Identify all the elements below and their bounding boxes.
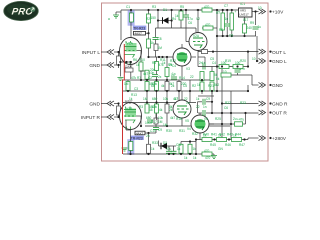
svg-text:1k: 1k xyxy=(151,147,155,151)
svg-text:2x: 2x xyxy=(158,75,162,79)
regulator U1 LM317 xyxy=(239,2,253,17)
svg-text:R23: R23 xyxy=(240,101,246,105)
wire right column xyxy=(196,36,259,140)
tube V2 (driver L upper) xyxy=(189,10,207,67)
svg-text:68: 68 xyxy=(151,84,155,88)
svg-text:1k: 1k xyxy=(184,156,188,160)
svg-text:10k: 10k xyxy=(158,116,164,120)
svg-text:GND L: GND L xyxy=(272,59,287,65)
svg-text:R31: R31 xyxy=(179,129,185,133)
svg-text:R45: R45 xyxy=(210,143,216,147)
resistor R31 xyxy=(197,82,204,91)
svg-text:C9: C9 xyxy=(158,128,162,132)
svg-text:C3: C3 xyxy=(134,87,138,91)
svg-text:R3: R3 xyxy=(139,105,143,109)
svg-text:22: 22 xyxy=(190,75,194,79)
junction dots right xyxy=(195,51,258,141)
capacitor C8 electrolytic xyxy=(218,10,225,30)
capacitor C4 xyxy=(171,73,177,79)
svg-text:V5: V5 xyxy=(185,119,189,123)
resistor R20 xyxy=(233,61,243,69)
svg-text:V2A: V2A xyxy=(193,34,200,38)
capacitor C16 electrolytic xyxy=(235,118,245,127)
svg-text:470: 470 xyxy=(205,156,211,160)
value label box R xyxy=(135,131,150,135)
svg-text:1k: 1k xyxy=(129,97,133,101)
svg-text:+: + xyxy=(235,10,237,14)
label TR-R24 (selected, blue) xyxy=(130,136,144,141)
svg-text:R2: R2 xyxy=(192,84,196,88)
resistor R7 xyxy=(145,82,155,91)
tube V5 (driver R upper) xyxy=(173,91,191,126)
resistor R33 xyxy=(200,72,204,81)
svg-text:R22: R22 xyxy=(225,101,231,105)
svg-text:R42: R42 xyxy=(219,133,225,137)
svg-text:4AX7: 4AX7 xyxy=(136,131,144,135)
svg-text:1M: 1M xyxy=(143,97,148,101)
svg-text:10k: 10k xyxy=(163,97,169,101)
capacitor C17 xyxy=(235,67,246,72)
svg-text:V3: V3 xyxy=(186,67,190,71)
svg-text:470: 470 xyxy=(204,5,210,9)
svg-text:470: 470 xyxy=(205,23,211,27)
resistor R9 xyxy=(165,82,174,91)
resistor R29 xyxy=(188,144,196,153)
svg-text:1u: 1u xyxy=(258,25,262,29)
svg-text:C9: C9 xyxy=(206,97,210,101)
svg-text:4k: 4k xyxy=(159,108,163,112)
svg-text:OUT L: OUT L xyxy=(272,50,286,56)
svg-text:10: 10 xyxy=(223,70,227,74)
port GND (left upper) xyxy=(89,62,119,69)
svg-text:1k: 1k xyxy=(136,63,140,67)
port OUT L xyxy=(259,49,287,56)
resistor R30 xyxy=(196,149,214,156)
port GND R xyxy=(259,101,288,108)
resistor R27 xyxy=(147,144,155,153)
svg-text:GND R: GND R xyxy=(272,102,288,108)
svg-text:1k: 1k xyxy=(197,83,201,87)
ground (top left) xyxy=(108,12,121,21)
svg-text:22: 22 xyxy=(196,105,200,109)
resistor R37 (series out L) xyxy=(202,50,215,54)
svg-text:R47: R47 xyxy=(239,143,245,147)
svg-text:240: 240 xyxy=(247,26,253,30)
tube V6 (driver R lower) xyxy=(191,113,214,140)
svg-text:680: 680 xyxy=(152,97,158,101)
capacitor C9 electrolytic xyxy=(230,10,237,30)
port OUT R xyxy=(259,110,288,117)
svg-text:R21: R21 xyxy=(208,84,214,88)
svg-text:R8: R8 xyxy=(152,61,156,65)
port GND L xyxy=(259,58,287,65)
resistor R26 on 280V rail xyxy=(232,134,242,142)
svg-text:C1: C1 xyxy=(126,5,130,9)
svg-text:C7: C7 xyxy=(174,97,178,101)
svg-text:OUT R: OUT R xyxy=(272,111,287,117)
resistor R4 xyxy=(155,62,165,71)
wire top +10V bus xyxy=(121,10,259,40)
resistor R6 xyxy=(124,82,130,91)
resistor R24 on 280V rail xyxy=(202,134,212,142)
svg-text:R5: R5 xyxy=(180,5,184,9)
resistor R19 xyxy=(219,61,229,69)
svg-text:R7: R7 xyxy=(216,11,220,15)
bottom strip wires xyxy=(123,133,196,154)
port GND right xyxy=(259,82,284,89)
svg-text:R3: R3 xyxy=(152,5,156,9)
schematic frame xyxy=(102,3,269,161)
svg-text:V2: V2 xyxy=(196,17,200,21)
resistor R8 xyxy=(152,82,159,91)
svg-text:R8: R8 xyxy=(219,28,223,32)
resistor R13 xyxy=(165,104,174,113)
wire grid mid-left xyxy=(122,51,230,127)
resistor R17 xyxy=(203,23,213,30)
resistor R35 xyxy=(140,70,149,79)
svg-text:R33: R33 xyxy=(152,141,158,145)
resistor R2 (input load R) xyxy=(117,102,121,118)
port INPUT L xyxy=(82,49,122,56)
resistor R1 (input load L) xyxy=(117,51,121,68)
resistor R36 xyxy=(147,33,155,58)
svg-text:47u: 47u xyxy=(166,147,172,151)
resistor R32 xyxy=(210,82,219,91)
svg-text:R40: R40 xyxy=(203,133,209,137)
svg-text:V6: V6 xyxy=(204,117,208,121)
svg-text:2n: 2n xyxy=(199,61,203,65)
svg-text:4AX7: 4AX7 xyxy=(135,32,143,36)
tube V4 (input triode R) xyxy=(120,99,142,130)
svg-text:1k: 1k xyxy=(162,61,166,65)
svg-text:2k: 2k xyxy=(169,108,173,112)
svg-text:4k7: 4k7 xyxy=(170,116,175,120)
svg-text:1k: 1k xyxy=(193,156,197,160)
svg-text:C5: C5 xyxy=(183,84,187,88)
svg-text:GND: GND xyxy=(89,102,100,108)
svg-text:+280V: +280V xyxy=(272,136,287,142)
junction dots grid line xyxy=(158,56,168,58)
capacitor C21 grid V5 xyxy=(149,113,163,133)
svg-text:GND: GND xyxy=(89,63,100,69)
svg-text:R9: R9 xyxy=(168,63,172,67)
svg-text:R25: R25 xyxy=(215,117,221,121)
value label box L xyxy=(134,31,150,35)
port +280V xyxy=(259,135,287,142)
svg-text:47k: 47k xyxy=(131,76,137,80)
svg-text:V4: V4 xyxy=(187,127,191,131)
logo PRO badge xyxy=(4,1,39,20)
resistor R28 xyxy=(177,144,183,153)
junction dots bottom xyxy=(129,140,197,155)
label TR-R23 (selected, blue) xyxy=(133,26,147,31)
resistor R21 xyxy=(221,70,231,77)
svg-text:R32: R32 xyxy=(192,132,198,136)
capacitor C1 selected (blue highlight) xyxy=(128,9,135,39)
svg-text:22n: 22n xyxy=(150,68,156,72)
svg-text:C10: C10 xyxy=(150,129,156,133)
svg-text:TR-R23: TR-R23 xyxy=(133,26,145,30)
svg-text:R2: R2 xyxy=(146,17,150,21)
svg-text:R7: R7 xyxy=(137,76,141,80)
resistor R34 xyxy=(210,72,218,81)
svg-text:C4: C4 xyxy=(212,61,216,65)
svg-text:1k: 1k xyxy=(193,147,197,151)
svg-text:R46: R46 xyxy=(225,143,231,147)
capacitor C3 xyxy=(149,71,158,77)
resistor R5 xyxy=(165,63,173,77)
svg-text:1M: 1M xyxy=(124,82,129,86)
tube V1 (input triode L) xyxy=(117,38,141,81)
svg-text:R6: R6 xyxy=(133,58,137,62)
wire driver columns bottom xyxy=(198,67,259,140)
capacitor C11 xyxy=(166,147,172,153)
svg-text:D1: D1 xyxy=(163,8,167,12)
capacitor C20 grid V3 xyxy=(149,28,174,57)
port GND (left lower) xyxy=(89,101,119,108)
capacitor C2 selected (blue highlight) xyxy=(127,129,134,155)
svg-text:LM317: LM317 xyxy=(240,13,250,17)
svg-text:150: 150 xyxy=(151,16,157,20)
ground (bottom left) xyxy=(122,148,128,151)
svg-text:C4: C4 xyxy=(172,64,176,68)
capacitor C13 xyxy=(202,61,206,70)
capacitor C5 xyxy=(145,120,153,125)
svg-text:V1B: V1B xyxy=(126,107,133,111)
capacitor C15 xyxy=(203,110,205,116)
green value labels row above 280V rail xyxy=(203,133,241,137)
svg-text:1M: 1M xyxy=(158,46,163,50)
svg-text:C7: C7 xyxy=(224,4,228,8)
svg-text:GN: GN xyxy=(218,147,223,151)
svg-text:2n: 2n xyxy=(146,134,150,138)
svg-text:1k: 1k xyxy=(196,97,200,101)
svg-text:470: 470 xyxy=(204,149,210,153)
capacitor C6 xyxy=(183,15,193,21)
svg-text:GND: GND xyxy=(272,83,283,89)
svg-text:817: 817 xyxy=(243,18,249,22)
svg-text:R20: R20 xyxy=(240,59,246,63)
svg-text:R4: R4 xyxy=(172,17,176,21)
svg-text:C8: C8 xyxy=(158,37,162,41)
svg-text:R9: R9 xyxy=(250,21,254,25)
resistor R10 xyxy=(177,82,187,91)
svg-text:V1A: V1A xyxy=(127,42,134,46)
port +10V xyxy=(259,9,285,16)
svg-text:68: 68 xyxy=(149,108,153,112)
port INPUT R xyxy=(81,114,122,121)
svg-text:1n: 1n xyxy=(186,101,190,105)
svg-text:R14: R14 xyxy=(179,76,185,80)
svg-text:1k: 1k xyxy=(177,147,181,151)
svg-text:R17: R17 xyxy=(151,120,157,124)
svg-text:1n: 1n xyxy=(172,72,176,76)
svg-text:5k: 5k xyxy=(216,77,220,81)
svg-text:C6: C6 xyxy=(188,21,192,25)
resistor R25 on 280V rail xyxy=(217,134,227,142)
svg-text:R19: R19 xyxy=(225,59,231,63)
svg-text:a: a xyxy=(108,17,110,21)
svg-text:10k: 10k xyxy=(152,105,158,109)
svg-text:R44: R44 xyxy=(235,133,241,137)
svg-text:R30: R30 xyxy=(166,129,172,133)
svg-text:10: 10 xyxy=(252,57,256,61)
svg-text:C6: C6 xyxy=(224,106,228,110)
ground (mid) xyxy=(211,154,217,159)
capacitor C14 xyxy=(203,99,207,109)
resistor R12 xyxy=(152,104,159,113)
svg-text:INPUT L: INPUT L xyxy=(82,50,101,56)
diode D2 xyxy=(161,143,167,149)
capacitor C10 xyxy=(253,25,262,29)
green reference labels scatter xyxy=(126,4,262,160)
resistor R16 xyxy=(202,5,212,12)
svg-text:2k: 2k xyxy=(171,84,175,88)
resistor R11 xyxy=(145,104,155,113)
svg-text:R18: R18 xyxy=(176,117,182,121)
resistor R18 xyxy=(243,24,253,33)
svg-text:1u: 1u xyxy=(225,17,229,21)
svg-text:4k: 4k xyxy=(161,84,165,88)
svg-text:R41: R41 xyxy=(211,133,217,137)
svg-text:4k7: 4k7 xyxy=(143,72,148,76)
svg-text:+47u: +47u xyxy=(237,118,244,122)
wire driver columns top xyxy=(122,57,248,96)
capacitor C19 xyxy=(171,151,177,153)
svg-text:C8: C8 xyxy=(229,34,233,38)
svg-text:IC1: IC1 xyxy=(240,2,245,6)
capacitor C7 xyxy=(224,17,230,26)
svg-text:D2: D2 xyxy=(163,141,167,145)
svg-text:R10: R10 xyxy=(139,58,145,62)
svg-text:+10V: +10V xyxy=(272,10,284,16)
tube V3 (driver L lower) xyxy=(173,44,196,80)
junction dots top xyxy=(147,9,256,92)
svg-text:C2: C2 xyxy=(148,76,152,80)
junction dots mid xyxy=(127,79,191,127)
svg-text:INPUT R: INPUT R xyxy=(81,115,101,121)
wire top area verticals xyxy=(149,10,257,91)
wire red highlighted net xyxy=(123,44,125,154)
svg-text:R43: R43 xyxy=(227,133,233,137)
resistor R15 xyxy=(175,11,183,20)
resistor R14 xyxy=(147,14,157,23)
svg-text:1n: 1n xyxy=(202,61,206,65)
svg-text:1n: 1n xyxy=(203,105,207,109)
svg-text:1M: 1M xyxy=(163,123,168,127)
svg-text:8k2: 8k2 xyxy=(214,83,219,87)
resistor R3 xyxy=(136,62,143,71)
svg-text:C11: C11 xyxy=(176,143,182,147)
diode D1 xyxy=(157,17,173,23)
svg-text:2u: 2u xyxy=(233,117,237,121)
